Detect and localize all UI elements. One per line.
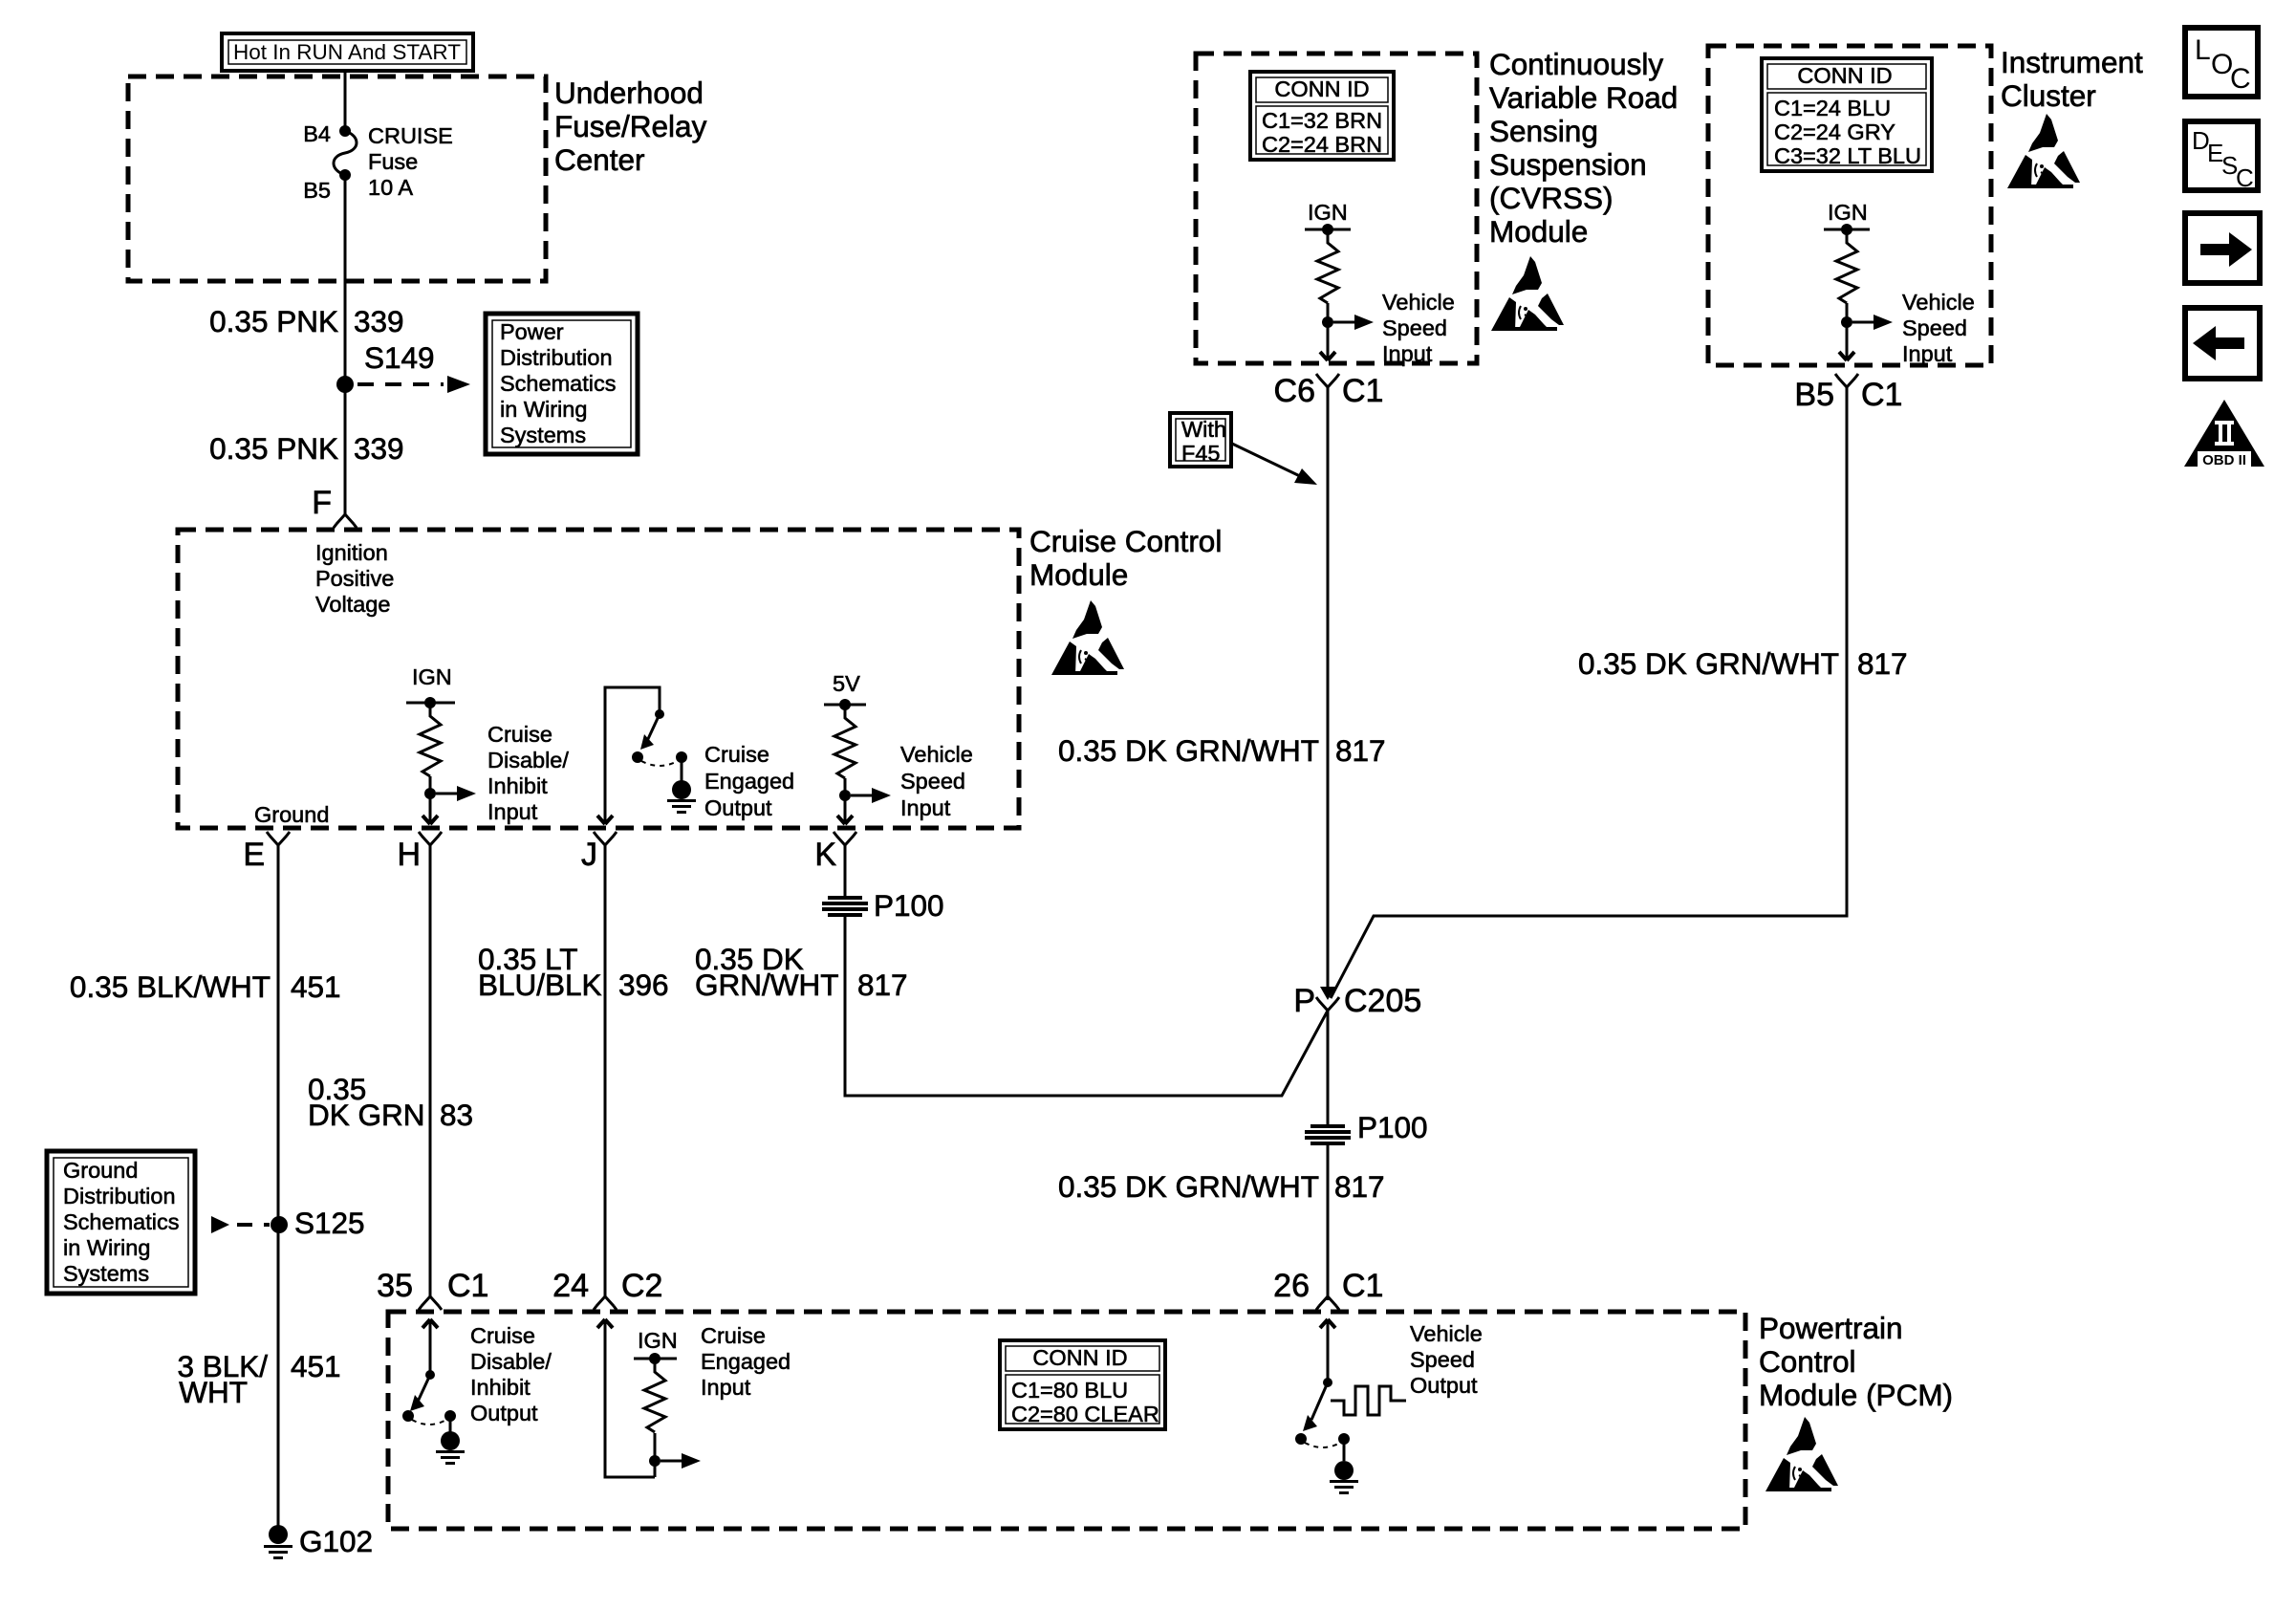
svg-text:Vehicle: Vehicle [1902, 290, 1975, 315]
svg-text:F45: F45 [1181, 441, 1221, 466]
CONN ID table (PCM) [1000, 1340, 1165, 1429]
svg-text:Suspension: Suspension [1489, 147, 1647, 182]
svg-text:K: K [814, 837, 836, 873]
connector pin 24 [594, 1296, 617, 1310]
arrow into pin H [422, 816, 438, 824]
svg-text:Disable/: Disable/ [470, 1349, 552, 1374]
svg-text:IGN: IGN [638, 1328, 678, 1353]
svg-text:CRUISE: CRUISE [368, 123, 453, 148]
svg-text:Cruise: Cruise [701, 1323, 766, 1348]
svg-text:Cruise Control: Cruise Control [1029, 524, 1222, 558]
CONN ID table (Instrument Cluster) [1762, 58, 1932, 171]
svg-text:Vehicle: Vehicle [1410, 1321, 1483, 1346]
wire J to PCM pin 24 [604, 845, 607, 1296]
svg-text:Center: Center [554, 142, 645, 177]
svg-text:Vehicle: Vehicle [1382, 290, 1455, 315]
svg-text:817: 817 [1857, 646, 1908, 681]
svg-text:Module: Module [1029, 557, 1128, 592]
resistor (cruise disable pull-up) [420, 703, 441, 776]
svg-text:Inhibit: Inhibit [470, 1375, 531, 1400]
icon LOC [2185, 28, 2258, 97]
wire from pin 24 to resistor [605, 1319, 655, 1477]
svg-text:Hot In RUN And START: Hot In RUN And START [233, 40, 461, 64]
module box: Powertrain Control Module (dashed) [388, 1312, 1745, 1529]
svg-text:C2: C2 [621, 1268, 662, 1304]
svg-text:Output: Output [704, 795, 772, 820]
svg-text:C: C [2236, 163, 2254, 192]
resistor (cluster speed input pull-up) [1836, 229, 1857, 303]
grommet P100 (PCM wire) [1305, 1124, 1351, 1145]
svg-text:Variable Road: Variable Road [1489, 80, 1678, 115]
svg-text:C1: C1 [1342, 373, 1383, 409]
svg-text:Power: Power [500, 319, 564, 344]
svg-text:C205: C205 [1344, 983, 1421, 1019]
svg-text:C1=80 BLU: C1=80 BLU [1011, 1378, 1128, 1403]
svg-text:C1: C1 [1342, 1268, 1383, 1304]
wire K from P100 to crossover [845, 917, 1328, 1096]
splice S149 [336, 376, 354, 393]
svg-text:C: C [2230, 63, 2251, 95]
arrow from With F45 to wire [1232, 444, 1302, 477]
module box: CVRSS Module (dashed) [1196, 54, 1477, 363]
svg-text:CONN ID: CONN ID [1032, 1345, 1127, 1370]
svg-text:Distribution: Distribution [500, 345, 613, 370]
svg-text:Module (PCM): Module (PCM) [1759, 1378, 1953, 1412]
svg-text:Cruise: Cruise [704, 742, 769, 767]
svg-text:WHT: WHT [179, 1375, 248, 1409]
node B5 [339, 169, 351, 181]
svg-text:Input: Input [1382, 341, 1433, 366]
svg-text:P100: P100 [874, 888, 944, 923]
dashed travel arc [641, 761, 678, 766]
svg-text:S125: S125 [294, 1206, 365, 1240]
connector B5/C1 [1835, 374, 1858, 387]
svg-text:Input: Input [1902, 341, 1953, 366]
svg-text:Engaged: Engaged [704, 769, 794, 794]
svg-text:817: 817 [1334, 1169, 1385, 1204]
svg-text:in Wiring: in Wiring [63, 1235, 150, 1260]
reference box With F45 [1170, 413, 1231, 467]
svg-text:P: P [1293, 983, 1315, 1019]
dashed reference arrow to splice S125 [211, 1216, 270, 1233]
svg-text:Voltage: Voltage [315, 592, 390, 617]
CONN ID table (CVRSS) [1250, 72, 1394, 160]
svg-text:GRN/WHT: GRN/WHT [695, 968, 838, 1002]
module box: Instrument Cluster (dashed) [1708, 46, 1991, 365]
fuse CRUISE Fuse 10 A [334, 131, 357, 175]
module box: Underhood Fuse/Relay Center (dashed) [128, 76, 546, 281]
connector E [267, 832, 290, 845]
switch Cruise Engaged Output (wire from J up and over) [605, 687, 660, 823]
svg-text:817: 817 [1335, 733, 1386, 768]
svg-text:Input: Input [701, 1375, 751, 1400]
svg-text:5V: 5V [833, 671, 860, 696]
svg-text:Positive: Positive [315, 566, 394, 591]
common contact [632, 751, 643, 763]
wire from Hot box to fuse pin B4 [344, 71, 347, 131]
wire H to PCM pin 35 [429, 845, 432, 1296]
svg-text:35: 35 [377, 1268, 413, 1304]
wire K down to P100 [844, 845, 847, 896]
svg-text:IGN: IGN [412, 664, 452, 689]
ESD symbol (Cruise Control Module) [1051, 600, 1124, 675]
ESD symbol (CVRSS) [1491, 256, 1564, 331]
svg-text:0.35 DK GRN/WHT: 0.35 DK GRN/WHT [1058, 733, 1319, 768]
svg-text:Fuse/Relay: Fuse/Relay [554, 109, 707, 143]
svg-text:Disable/: Disable/ [487, 748, 569, 772]
icon left arrow [2185, 308, 2260, 379]
ESD symbol (Instrument Cluster) [2007, 114, 2080, 188]
svg-text:0.35 DK GRN/WHT: 0.35 DK GRN/WHT [1058, 1169, 1319, 1204]
wire cluster C1 down and left to C205 [1331, 387, 1847, 998]
svg-text:CONN ID: CONN ID [1274, 76, 1369, 101]
resistor (CVRSS speed input pull-up) [1317, 229, 1338, 303]
svg-text:0.35 DK GRN/WHT: 0.35 DK GRN/WHT [1578, 646, 1839, 681]
svg-text:Schematics: Schematics [63, 1209, 179, 1234]
svg-text:817: 817 [857, 968, 908, 1002]
svg-text:(CVRSS): (CVRSS) [1489, 181, 1614, 215]
svg-text:0.35 BLK/WHT: 0.35 BLK/WHT [70, 969, 271, 1004]
svg-text:0.35 PNK: 0.35 PNK [209, 304, 338, 338]
switch Vehicle Speed Output [1320, 1319, 1335, 1328]
svg-text:Ground: Ground [254, 802, 329, 827]
svg-text:Fuse: Fuse [368, 149, 418, 174]
svg-text:Module: Module [1489, 214, 1588, 249]
svg-text:C1: C1 [1861, 377, 1902, 413]
svg-text:C1=24 BLU: C1=24 BLU [1774, 96, 1891, 120]
connector pin 35 [419, 1296, 442, 1310]
svg-text:Systems: Systems [500, 423, 586, 447]
connector J [594, 832, 617, 845]
svg-text:Underhood: Underhood [554, 76, 704, 110]
svg-text:Output: Output [470, 1401, 538, 1425]
svg-text:Ignition: Ignition [315, 540, 388, 565]
icon DESC [2185, 121, 2258, 192]
connector H [419, 832, 442, 845]
junction and arrow Vehicle Speed Input (CVRSS) [1322, 316, 1333, 328]
svg-text:Cruise: Cruise [487, 722, 552, 747]
svg-text:Cluster: Cluster [2001, 78, 2096, 113]
svg-text:L: L [2195, 34, 2211, 66]
junction and arrow Cruise Disable/Inhibit Input [424, 788, 436, 799]
wire from fuse B5 down to connector F [344, 175, 347, 514]
ground G102 [269, 1525, 288, 1544]
svg-text:Ground: Ground [63, 1158, 138, 1183]
connector pin 26 [1316, 1296, 1339, 1310]
ESD symbol (PCM) [1765, 1417, 1838, 1491]
connector C6/C1 [1316, 374, 1339, 387]
svg-text:Powertrain: Powertrain [1759, 1311, 1903, 1345]
svg-text:Speed: Speed [1410, 1347, 1475, 1372]
arrowhead into C205 [1320, 987, 1335, 1000]
svg-text:Systems: Systems [63, 1261, 149, 1286]
svg-text:C1=32 BRN: C1=32 BRN [1262, 108, 1382, 133]
svg-text:IGN: IGN [1828, 200, 1868, 225]
switch arm with arrowhead [647, 714, 660, 741]
ground (cruise disable output) [436, 1450, 465, 1465]
svg-text:C2=80 CLEAR: C2=80 CLEAR [1011, 1402, 1159, 1426]
svg-text:Control: Control [1759, 1344, 1856, 1379]
svg-text:F: F [312, 485, 332, 521]
svg-text:Output: Output [1410, 1373, 1478, 1398]
svg-text:IGN: IGN [1308, 200, 1348, 225]
label box Hot In RUN And START [222, 33, 473, 71]
module box: Cruise Control Module (dashed) [178, 530, 1019, 828]
svg-text:24: 24 [552, 1268, 589, 1304]
solenoid ball to ground [681, 757, 683, 782]
icon right arrow [2185, 213, 2260, 283]
svg-text:B4: B4 [303, 121, 331, 146]
svg-text:S149: S149 [364, 340, 435, 375]
reference box Ground Distribution Schematics in Wiring Systems [47, 1151, 195, 1294]
svg-text:451: 451 [291, 969, 341, 1004]
svg-text:B5: B5 [303, 178, 331, 203]
wire C205 down through P100 to PCM pin 26 [1327, 1011, 1330, 1124]
dashed reference arrow to Power Distribution box [357, 376, 470, 393]
grommet P100 (K wire) [822, 896, 868, 917]
icon OBD II triangle [2184, 400, 2264, 468]
svg-text:OBD II: OBD II [2202, 452, 2246, 468]
svg-text:in Wiring: in Wiring [500, 397, 587, 422]
wire CVRSS C1 down to C205 [1327, 387, 1330, 989]
switch Cruise Disable/Inhibit Output [422, 1319, 438, 1328]
node B4 [339, 125, 351, 137]
svg-text:339: 339 [354, 304, 404, 338]
reference box Power Distribution Schematics in Wiring Systems [486, 314, 638, 454]
svg-text:451: 451 [291, 1349, 341, 1383]
svg-text:Inhibit: Inhibit [487, 773, 548, 798]
connector C205 [1316, 997, 1339, 1011]
svg-text:10 A: 10 A [368, 175, 413, 200]
svg-text:26: 26 [1273, 1268, 1310, 1304]
svg-text:P100: P100 [1357, 1110, 1428, 1144]
square wave symbol [1331, 1386, 1406, 1415]
svg-text:C6: C6 [1274, 373, 1315, 409]
svg-text:Cruise: Cruise [470, 1323, 535, 1348]
svg-text:Speed: Speed [1902, 315, 1967, 340]
svg-text:DK GRN: DK GRN [308, 1098, 425, 1132]
svg-text:BLU/BLK: BLU/BLK [478, 968, 602, 1002]
svg-text:E: E [243, 837, 265, 873]
connector F [334, 514, 357, 528]
svg-text:B5: B5 [1794, 377, 1834, 413]
svg-text:C1: C1 [447, 1268, 488, 1304]
svg-text:83: 83 [440, 1098, 473, 1132]
junction and arrow Vehicle Speed Input (cruise) [839, 790, 851, 801]
svg-text:Engaged: Engaged [701, 1349, 791, 1374]
wire E down to G102 [277, 845, 280, 1528]
svg-text:Instrument: Instrument [2001, 45, 2143, 79]
ground (vehicle speed output) [1330, 1480, 1358, 1494]
svg-text:0.35 PNK: 0.35 PNK [209, 431, 338, 466]
svg-text:C3=32 LT BLU: C3=32 LT BLU [1774, 143, 1921, 168]
svg-text:C2=24 GRY: C2=24 GRY [1774, 120, 1895, 144]
junction and arrow Vehicle Speed Input (cluster) [1841, 316, 1852, 328]
resistor (cruise engaged input pull-up) [644, 1359, 665, 1432]
svg-text:Input: Input [487, 799, 538, 824]
svg-text:396: 396 [618, 968, 669, 1002]
svg-text:Vehicle: Vehicle [900, 742, 973, 767]
svg-text:C2=24 BRN: C2=24 BRN [1262, 132, 1382, 157]
ground (cruise engaged output) [667, 799, 696, 814]
svg-text:Schematics: Schematics [500, 371, 616, 396]
svg-text:J: J [581, 837, 597, 873]
svg-text:Speed: Speed [1382, 315, 1447, 340]
connector K [834, 832, 856, 845]
svg-text:Sensing: Sensing [1489, 114, 1598, 148]
svg-text:CONN ID: CONN ID [1797, 63, 1892, 88]
svg-text:H: H [397, 837, 421, 873]
resistor (vehicle speed pull-up) [834, 705, 856, 778]
svg-text:G102: G102 [299, 1524, 373, 1558]
svg-text:With: With [1181, 417, 1226, 442]
svg-text:Speed: Speed [900, 769, 965, 794]
svg-text:Distribution: Distribution [63, 1184, 176, 1208]
fixed contact [676, 751, 687, 763]
svg-text:Input: Input [900, 795, 951, 820]
splice S125 [271, 1216, 288, 1233]
svg-text:339: 339 [354, 431, 404, 466]
junction and arrow (cruise engaged input) [649, 1455, 661, 1467]
svg-text:Continuously: Continuously [1489, 47, 1663, 81]
